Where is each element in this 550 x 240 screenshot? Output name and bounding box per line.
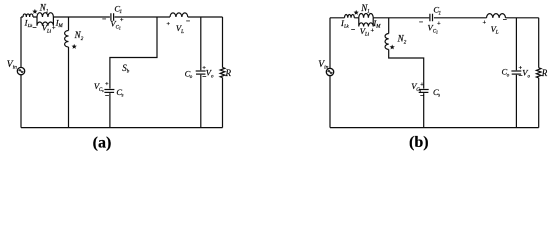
label Co (a) bbox=[185, 68, 193, 80]
ac source Vin (b) bbox=[326, 68, 333, 75]
voltage label Vo with polarity (b) bbox=[518, 65, 530, 81]
wire top rail (b) bbox=[330, 17, 539, 19]
polarity signs of C1 (b) bbox=[419, 18, 441, 28]
svg-text:s: s bbox=[122, 94, 124, 99]
label N1 (a) bbox=[39, 3, 49, 15]
svg-text:+: + bbox=[105, 81, 109, 88]
label ILk (a) bbox=[24, 18, 34, 28]
svg-text:2: 2 bbox=[404, 40, 407, 45]
svg-text:in: in bbox=[324, 65, 329, 71]
label ILk (b) bbox=[340, 18, 350, 28]
wire switch branch Sb (a) bbox=[110, 17, 157, 128]
label Co (b) bbox=[502, 67, 510, 79]
svg-text:s: s bbox=[102, 89, 104, 93]
svg-text:+: + bbox=[370, 27, 374, 34]
polarity star of N2 (b) bbox=[390, 44, 395, 49]
label R (b) bbox=[541, 68, 548, 78]
svg-text:+: + bbox=[482, 19, 486, 26]
leakage inductor Lk (a) bbox=[23, 14, 33, 17]
capacitor Cs (a) bbox=[104, 89, 114, 91]
resistor R (a) bbox=[220, 68, 225, 78]
label VC1 (a) bbox=[110, 18, 121, 30]
wire N2 branch (a) bbox=[68, 17, 70, 128]
svg-text:1: 1 bbox=[119, 26, 121, 30]
svg-text:−: − bbox=[186, 16, 190, 25]
svg-text:−: − bbox=[503, 15, 507, 24]
svg-text:+: + bbox=[437, 20, 441, 27]
wire Co branch (b) bbox=[515, 18, 517, 128]
svg-text:−: − bbox=[202, 72, 206, 81]
svg-text:M: M bbox=[58, 24, 64, 29]
wire right edge (b) bbox=[538, 18, 540, 128]
svg-text:L: L bbox=[180, 30, 184, 35]
label N2 (a) bbox=[74, 30, 84, 42]
wire bottom rail (a) bbox=[21, 127, 223, 129]
label N2 (b) bbox=[397, 34, 407, 46]
label C1 (b) bbox=[433, 5, 441, 17]
svg-text:L: L bbox=[495, 31, 499, 36]
svg-text:o: o bbox=[507, 73, 510, 78]
svg-text:(b): (b) bbox=[409, 134, 429, 151]
capacitor C1 (a) bbox=[111, 13, 114, 21]
label Sb (a) bbox=[122, 63, 129, 75]
wire left edge (a) bbox=[20, 17, 22, 128]
svg-text:−: − bbox=[518, 71, 522, 80]
label C1 (a) bbox=[114, 3, 122, 15]
svg-text:(a): (a) bbox=[93, 134, 112, 151]
wire right edge (a) bbox=[222, 17, 224, 128]
svg-text:1: 1 bbox=[439, 11, 442, 16]
ac source Vin (a) bbox=[17, 67, 24, 74]
svg-text:o: o bbox=[190, 75, 193, 80]
wire top rail (a) bbox=[21, 16, 223, 18]
svg-text:s: s bbox=[438, 94, 440, 99]
polarity star of N2 (a) bbox=[72, 44, 77, 49]
voltage label VLi with polarity (a) bbox=[32, 23, 56, 35]
winding N1 top coil (b) bbox=[359, 13, 373, 17]
svg-text:+: + bbox=[166, 21, 170, 28]
label Cs (b) bbox=[433, 87, 440, 99]
svg-text:Lk: Lk bbox=[343, 24, 350, 29]
label Vin (b) bbox=[318, 60, 328, 71]
wire N2 branch with step (b) bbox=[389, 18, 424, 128]
winding N2 (b) bbox=[385, 34, 389, 50]
label N1 (b) bbox=[360, 3, 370, 15]
svg-text:−: − bbox=[102, 14, 106, 23]
svg-text:1: 1 bbox=[367, 10, 370, 15]
svg-text:−: − bbox=[32, 23, 36, 32]
wire bottom rail (b) bbox=[330, 127, 539, 129]
label R (a) bbox=[225, 68, 232, 78]
caption (b) bbox=[409, 134, 429, 151]
voltage label VL with polarity (b) bbox=[482, 15, 507, 36]
svg-text:1: 1 bbox=[436, 30, 438, 34]
voltage label VLi with polarity (b) bbox=[351, 25, 375, 38]
svg-text:−: − bbox=[351, 25, 355, 34]
wire left edge (b) bbox=[329, 18, 331, 128]
svg-text:−: − bbox=[420, 91, 424, 100]
winding N1 top coil (a) bbox=[37, 13, 53, 17]
polarity star of Lk (b) bbox=[354, 10, 359, 15]
label Cs (a) bbox=[116, 87, 123, 99]
voltage label VL with polarity (a) bbox=[166, 16, 190, 35]
polarity star of Lk (a) bbox=[32, 9, 37, 14]
label Vin (a) bbox=[7, 60, 17, 71]
svg-text:Li: Li bbox=[364, 33, 370, 38]
capacitor Co (a) bbox=[196, 70, 206, 72]
svg-text:o: o bbox=[528, 74, 531, 79]
svg-text:+: + bbox=[420, 81, 424, 88]
magnetizing inductor coil (a) bbox=[37, 17, 53, 26]
wire Co branch (a) bbox=[200, 17, 202, 128]
polarity signs of C1 (a) bbox=[102, 14, 124, 23]
svg-text:R: R bbox=[541, 68, 548, 78]
output inductor Lo (b) bbox=[487, 14, 506, 18]
voltage label Vo with polarity (a) bbox=[202, 65, 214, 82]
caption (a) bbox=[93, 134, 112, 151]
magnetizing inductor coil (b) bbox=[359, 18, 373, 27]
label VCs with polarity (a) bbox=[94, 81, 109, 101]
label IM (b) bbox=[372, 18, 381, 30]
label VCs with polarity (b) bbox=[411, 81, 424, 100]
svg-text:−: − bbox=[419, 18, 423, 27]
svg-text:b: b bbox=[127, 70, 130, 75]
label VC1 (b) bbox=[428, 22, 439, 34]
leakage inductor Lk (b) bbox=[345, 14, 355, 17]
svg-text:in: in bbox=[13, 65, 18, 71]
capacitor C1 (b) bbox=[430, 14, 433, 21]
svg-text:+: + bbox=[52, 25, 56, 32]
svg-text:1: 1 bbox=[120, 10, 123, 15]
winding N2 (a) bbox=[65, 31, 69, 48]
label IM (a) bbox=[55, 17, 64, 29]
svg-text:1: 1 bbox=[46, 9, 49, 14]
output inductor Lo (a) bbox=[170, 13, 188, 17]
svg-text:o: o bbox=[211, 74, 214, 79]
svg-text:M: M bbox=[375, 25, 381, 30]
svg-text:2: 2 bbox=[81, 37, 84, 42]
resistor R (b) bbox=[536, 68, 541, 78]
capacitor Cs (b) bbox=[419, 89, 429, 91]
capacitor Co (b) bbox=[511, 70, 521, 72]
svg-text:R: R bbox=[225, 68, 232, 78]
svg-text:−: − bbox=[105, 91, 109, 100]
svg-text:+: + bbox=[120, 17, 124, 24]
